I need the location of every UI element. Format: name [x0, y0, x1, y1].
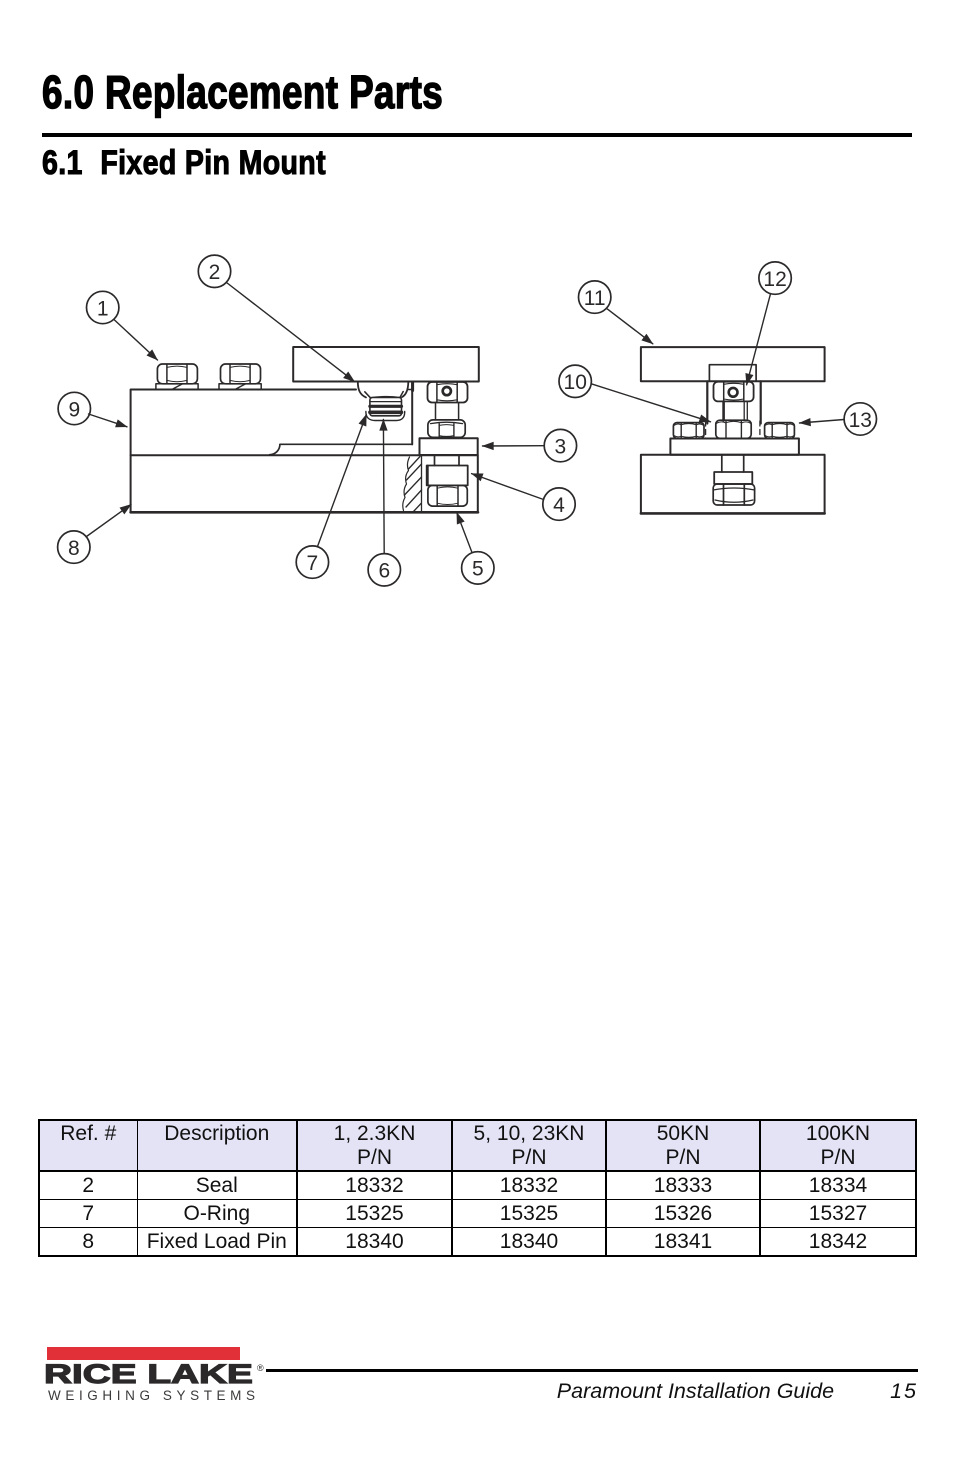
leader 9	[89, 414, 128, 427]
washer block (item 4)	[427, 466, 468, 486]
callout 12	[759, 262, 791, 294]
svg-text:1: 1	[97, 297, 109, 320]
anchor nut (end view)	[713, 484, 754, 505]
top plate (item 11)	[641, 347, 825, 381]
callout 1	[87, 291, 119, 323]
callout 9	[58, 392, 90, 424]
relief line under upper block	[270, 444, 413, 454]
leader 6	[382, 420, 385, 554]
svg-text:10: 10	[564, 371, 587, 394]
logo red bar	[47, 1347, 240, 1360]
center boss under plate	[709, 365, 756, 382]
hatch break region in base	[403, 456, 422, 512]
callout 10	[559, 365, 591, 397]
hex nut 2 on receiver	[219, 364, 261, 390]
svg-text:3: 3	[555, 435, 567, 458]
upper receiver block	[131, 383, 413, 456]
leader 3	[483, 445, 545, 447]
svg-text:8: 8	[68, 537, 80, 560]
retainer screw head (item 12)	[714, 382, 754, 402]
left jam nut	[673, 423, 704, 439]
svg-text:11: 11	[584, 287, 606, 310]
svg-text:5: 5	[472, 558, 484, 581]
parts table	[38, 1119, 917, 1257]
base block	[641, 455, 825, 514]
housing side walls	[707, 381, 760, 423]
center nut (item 10)	[716, 420, 751, 438]
washer block (end view)	[714, 472, 752, 484]
leader 13	[800, 420, 845, 424]
stand-off plate (end view)	[670, 439, 799, 455]
callout 8	[58, 531, 90, 563]
leader 8	[87, 505, 132, 537]
callout 7	[296, 546, 328, 578]
leader 5	[457, 513, 472, 553]
callout 2	[198, 255, 230, 287]
centerline dashes	[706, 421, 760, 439]
anchor bolt shaft in base cavity	[435, 455, 460, 466]
leader 1	[115, 320, 158, 360]
logo RICE LAKE wordmark	[44, 1359, 253, 1390]
leader 10	[591, 384, 710, 422]
jam nut on cap screw	[428, 420, 465, 438]
leader 12	[747, 294, 771, 385]
heading 6.1 Fixed Pin Mount	[42, 144, 326, 183]
anchor hex nut (item 5)	[428, 485, 467, 506]
pin retainer hex screw head	[428, 382, 468, 403]
callout 11	[579, 281, 611, 313]
hex nut 1 on receiver	[156, 364, 198, 390]
logo registered mark	[257, 1363, 264, 1373]
leader 2	[227, 283, 355, 382]
leader 7	[318, 415, 367, 547]
callout 6	[368, 554, 400, 586]
cap screw shaft	[436, 403, 459, 420]
callout 5	[462, 552, 494, 584]
heading 6.0 Replacement Parts	[42, 65, 443, 119]
footer rule	[266, 1369, 918, 1372]
horizontal rule under heading	[42, 133, 912, 137]
leader 4	[472, 474, 544, 500]
retainer screw shaft	[724, 401, 748, 420]
svg-text:9: 9	[68, 398, 80, 421]
svg-text:12: 12	[763, 268, 786, 291]
right jam nut (item 13)	[765, 423, 795, 439]
svg-text:13: 13	[849, 409, 872, 432]
callout 3	[544, 429, 576, 461]
Rice Lake logo	[45, 1344, 47, 1346]
anchor bolt shaft (end view)	[722, 455, 744, 472]
DIAGRAM SVG	[0, 0, 954, 640]
logo WEIGHING SYSTEMS	[48, 1388, 260, 1403]
stand-off plate (item 3)	[420, 438, 478, 455]
seal (funnel)	[358, 382, 409, 420]
callout 13	[844, 403, 876, 435]
lower base plate	[131, 455, 478, 512]
fixed load pin head with o-ring grooves	[370, 397, 402, 416]
svg-text:6: 6	[378, 560, 390, 583]
footer text	[0, 1379, 918, 1404]
svg-text:7: 7	[307, 552, 319, 575]
svg-text:4: 4	[553, 494, 565, 517]
callout 4	[543, 488, 575, 520]
svg-text:2: 2	[209, 261, 221, 284]
leader 11	[606, 308, 653, 344]
top plate	[293, 347, 479, 382]
